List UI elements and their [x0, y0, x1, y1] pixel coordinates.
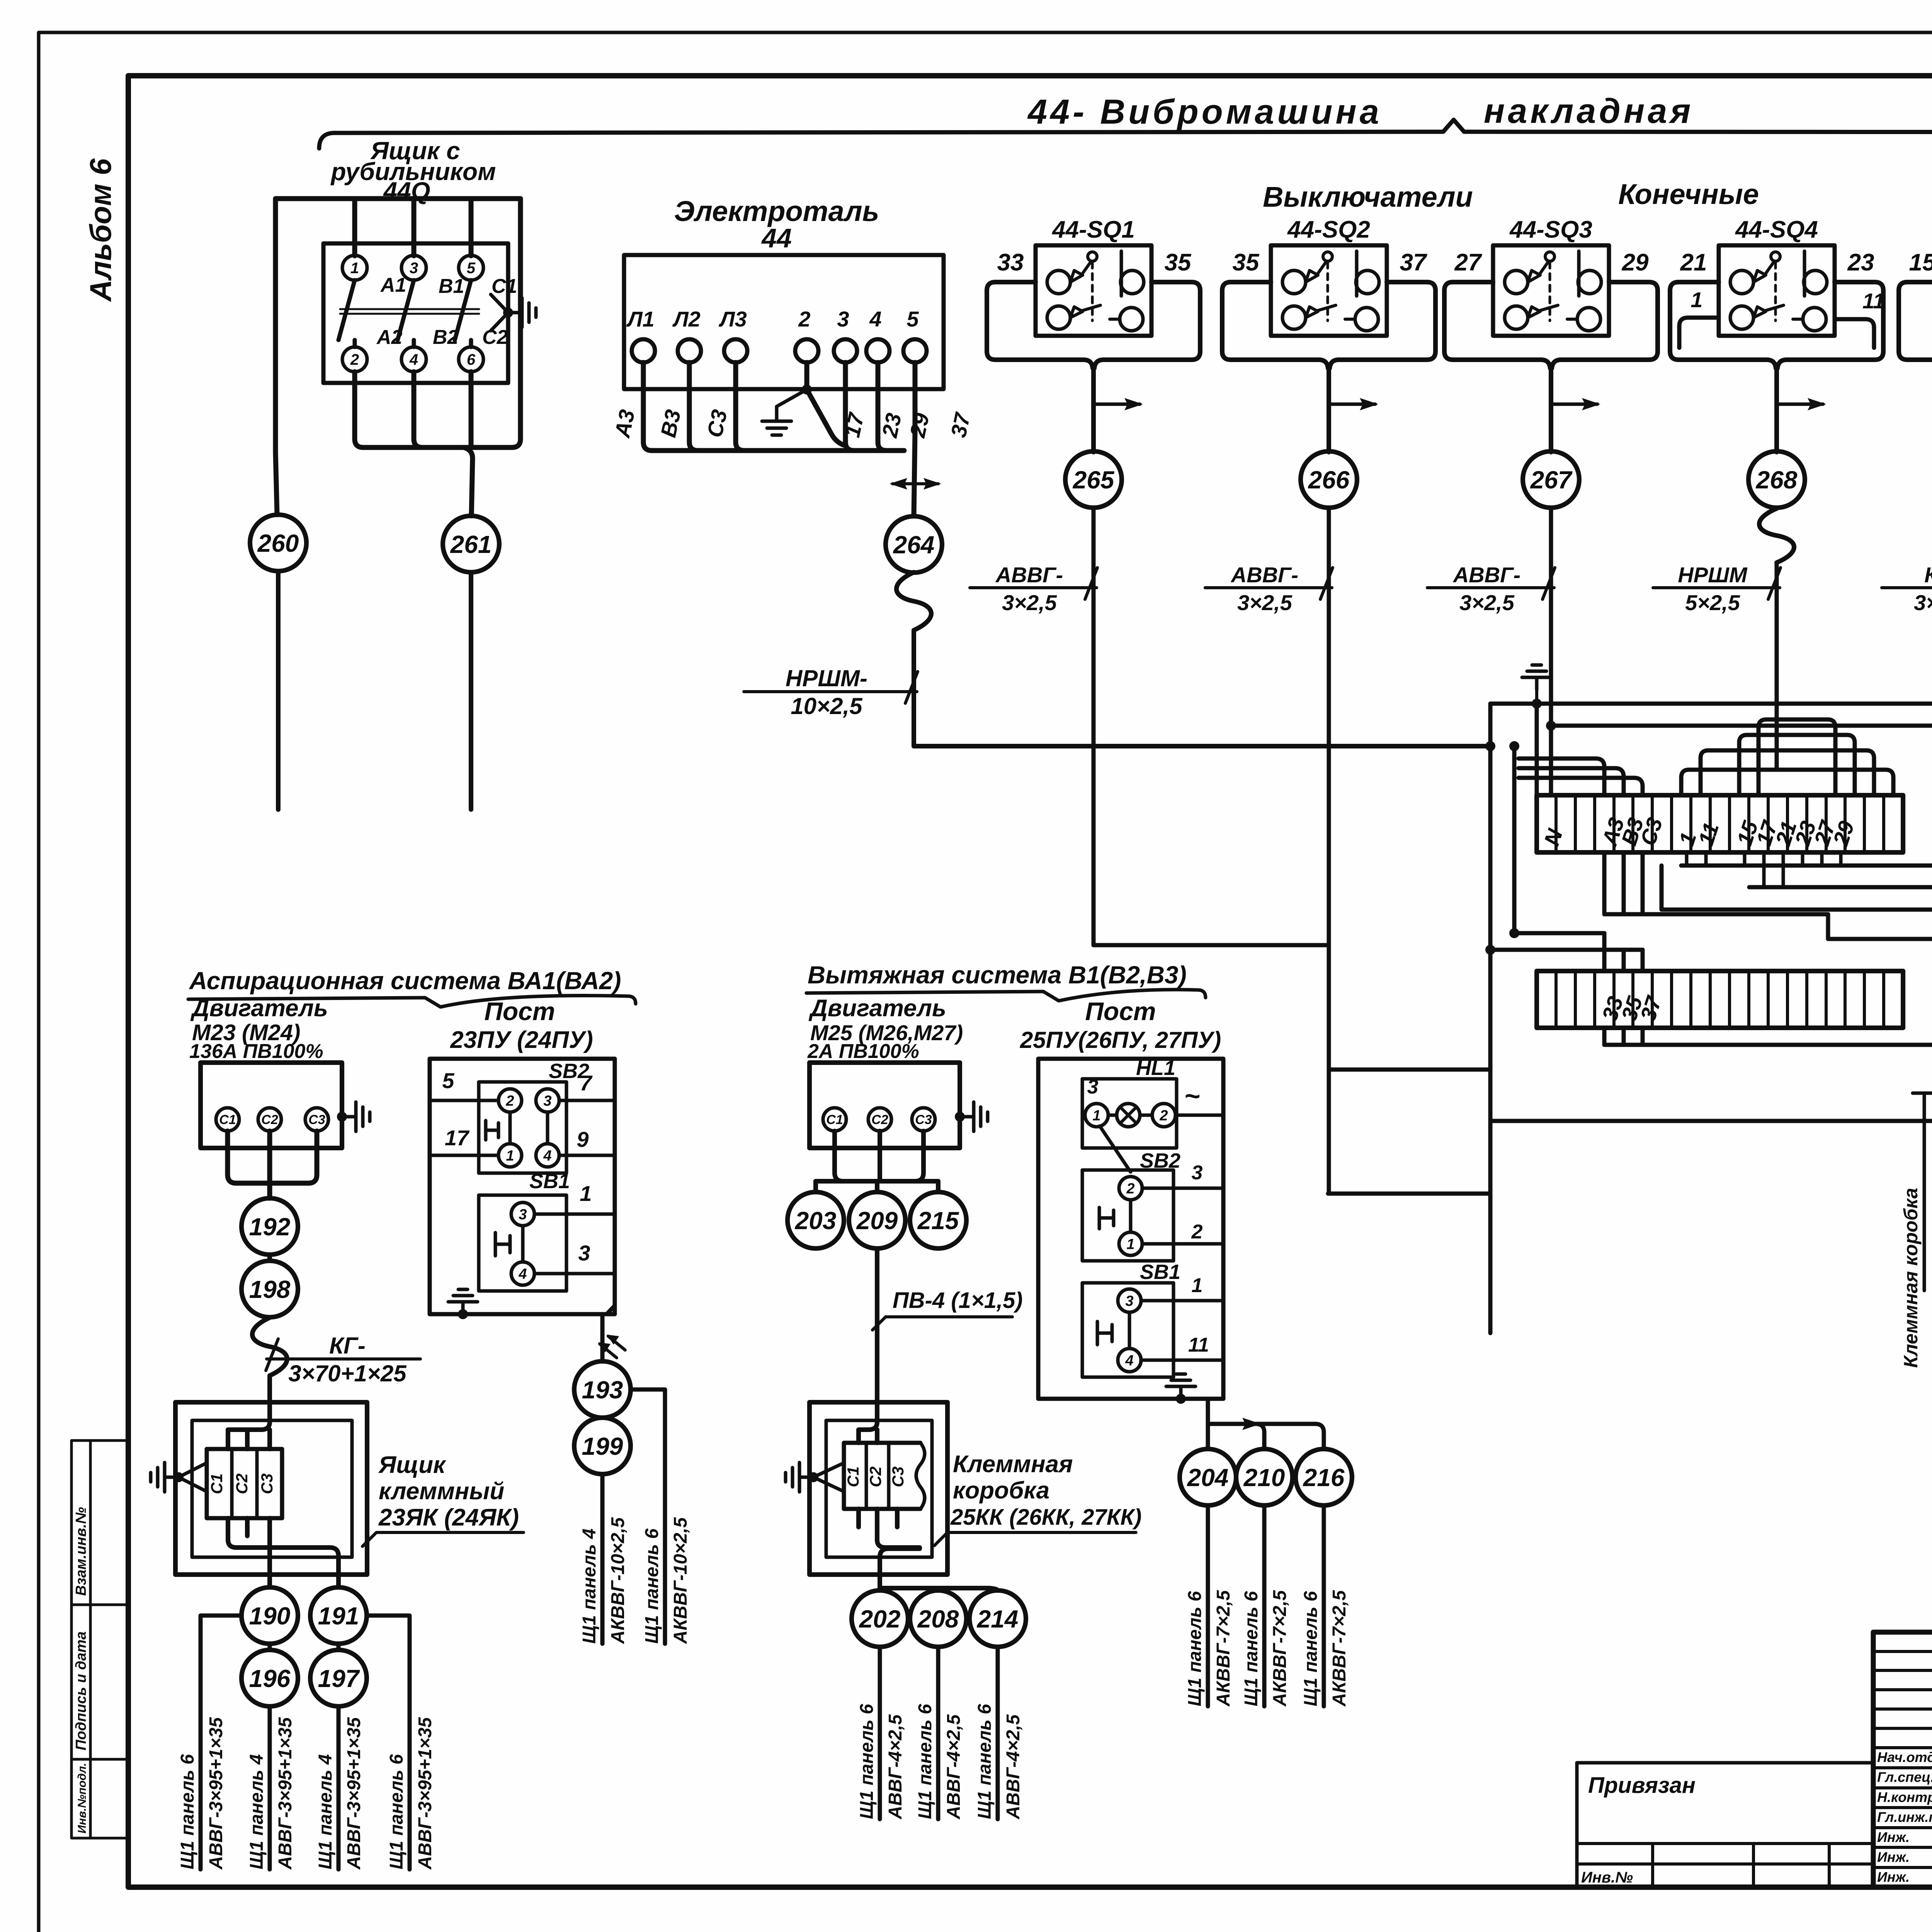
svg-text:коробка: коробка: [953, 1477, 1049, 1504]
svg-text:3: 3: [837, 307, 849, 331]
control post 23PU box: [430, 1059, 615, 1314]
svg-text:Клеммная коробка: Клеммная коробка: [1900, 1188, 1922, 1368]
svg-text:С2: С2: [871, 1112, 888, 1127]
limit switch 44-SQ2: [1271, 245, 1387, 336]
svg-text:Щ1 панель 6: Щ1 панель 6: [386, 1754, 407, 1869]
23YAK earthing: [179, 1463, 207, 1492]
svg-text:268: 268: [1756, 466, 1798, 494]
svg-text:260: 260: [257, 529, 299, 557]
cable slack below 264: [896, 572, 931, 630]
disconnect marker on feeder: [893, 482, 938, 485]
junction box 23YAK(24YAK): [175, 1402, 367, 1575]
node 202: [852, 1590, 908, 1647]
wire 209 to 25KK: [875, 1249, 879, 1402]
svg-text:209: 209: [856, 1207, 898, 1235]
destination label dest under 199: [579, 1517, 628, 1644]
svg-text:Инж.: Инж.: [1877, 1869, 1910, 1885]
svg-text:215: 215: [917, 1207, 959, 1235]
svg-text:Щ1 панель 6: Щ1 панель 6: [642, 1529, 662, 1644]
destination label dest under 210: [1241, 1590, 1290, 1707]
contact 3: [401, 255, 426, 280]
svg-text:193: 193: [582, 1376, 623, 1404]
23YAK terminal block C1 C2 C3: [207, 1449, 282, 1518]
svg-text:25ПУ(26ПУ, 27ПУ): 25ПУ(26ПУ, 27ПУ): [1020, 1027, 1221, 1053]
svg-text:Двигатель: Двигатель: [808, 995, 946, 1022]
svg-text:SB1: SB1: [529, 1170, 570, 1193]
svg-text:С1: С1: [826, 1112, 843, 1127]
svg-text:С2: С2: [233, 1473, 251, 1494]
motor M23 terminal C3: [305, 1108, 328, 1131]
motor M23 box: [201, 1063, 342, 1148]
svg-text:198: 198: [249, 1276, 291, 1303]
SB2 wires: [430, 1100, 615, 1155]
node 197: [310, 1650, 367, 1706]
svg-text:210: 210: [1243, 1464, 1285, 1492]
stub cluster into strip from left buses: [1519, 759, 1643, 795]
motor M25 earthing: [955, 1112, 965, 1122]
harness bus upper: [1490, 704, 1932, 866]
svg-text:1: 1: [506, 1148, 514, 1164]
destination label dest under 214: [975, 1704, 1024, 1820]
left harness vertical: [1488, 704, 1493, 1333]
wire below 265: [1092, 509, 1096, 945]
switch blades: [338, 280, 471, 347]
ground at M23: [342, 1102, 370, 1131]
svg-text:21: 21: [1680, 249, 1707, 276]
svg-text:27: 27: [1454, 249, 1482, 276]
wire below 196: [268, 1706, 272, 1869]
wire from 264 to terminal panel: [914, 630, 1488, 746]
wires below 202 208 214: [878, 1647, 882, 1819]
svg-text:накладная: накладная: [1484, 92, 1694, 131]
branch to 210 216: [1208, 1424, 1324, 1448]
svg-text:17: 17: [445, 1126, 470, 1150]
svg-text:15: 15: [1909, 249, 1932, 276]
stubs into lower strip: [1604, 933, 1643, 971]
svg-text:АВВГ-: АВВГ-: [995, 563, 1063, 587]
cable label AVVG-3x2.5 under 265: [970, 563, 1097, 615]
svg-text:С3: С3: [258, 1473, 276, 1494]
svg-text:3: 3: [519, 1206, 527, 1223]
svg-text:КГ-: КГ-: [1924, 563, 1932, 587]
node 203: [787, 1192, 844, 1248]
disconnect switch 44Q outer wiring box: [276, 199, 520, 452]
motor M23 terminal C2: [258, 1108, 281, 1131]
SB1 wires: [534, 1214, 615, 1274]
wires below 204 210 216: [1206, 1505, 1210, 1706]
svg-text:25КК (26КК, 27КК): 25КК (26КК, 27КК): [950, 1505, 1141, 1530]
branch from 193 right: [631, 1389, 665, 1644]
header wires to 203 209 215: [816, 1181, 938, 1192]
svg-text:Ящик: Ящик: [378, 1452, 446, 1478]
motor M25 terminal C2: [868, 1108, 891, 1131]
svg-text:АКВВГ-10×2,5: АКВВГ-10×2,5: [608, 1517, 628, 1644]
wiring loop of 44-SQ2: [1222, 282, 1435, 452]
flow arrow under 44-SQ1: [1094, 403, 1140, 406]
svg-text:Щ1 панель 4: Щ1 панель 4: [579, 1529, 600, 1644]
svg-text:Щ1 панель 6: Щ1 панель 6: [915, 1704, 935, 1819]
node 216: [1296, 1449, 1352, 1505]
svg-text:АВВГ-4×2,5: АВВГ-4×2,5: [944, 1714, 964, 1820]
svg-text:23ЯК (24ЯК): 23ЯК (24ЯК): [378, 1504, 519, 1531]
svg-text:196: 196: [249, 1665, 291, 1692]
svg-text:3: 3: [543, 1093, 551, 1109]
motor M25 terminal C3: [912, 1108, 935, 1131]
svg-text:НРШМ-: НРШМ-: [786, 665, 867, 691]
svg-text:С1: С1: [219, 1112, 236, 1127]
push button SB2 of 25PU: [1082, 1170, 1173, 1261]
svg-text:136А ПВ100%: 136А ПВ100%: [189, 1040, 323, 1063]
svg-text:23ПУ (24ПУ): 23ПУ (24ПУ): [450, 1027, 593, 1053]
wire 192-198: [267, 1255, 272, 1261]
push button SB1 of 25PU: [1082, 1283, 1173, 1377]
svg-text:1: 1: [350, 260, 359, 277]
svg-text:АВВГ-: АВВГ-: [1230, 563, 1298, 587]
svg-text:Подпись и дата: Подпись и дата: [73, 1631, 89, 1750]
svg-text:АВВГ-3×95+1×35: АВВГ-3×95+1×35: [206, 1717, 226, 1870]
disconnect marks: [600, 1344, 617, 1358]
cable label AVVG-3x2.5 under 267: [1427, 563, 1555, 615]
motor M23 terminal C1: [216, 1108, 239, 1131]
node 260: [250, 515, 306, 571]
wire: [1329, 1068, 1490, 1072]
earthing of 44Q enclosure: [503, 308, 513, 318]
ground on hoist neutral wire: [802, 384, 812, 395]
inner loop of 25KK: [826, 1420, 932, 1557]
svg-text:АВВГ-4×2,5: АВВГ-4×2,5: [1003, 1714, 1024, 1820]
branch to left label: [201, 1616, 241, 1869]
svg-text:44-SQ3: 44-SQ3: [1509, 216, 1592, 243]
wires from contacts 2 4 6 to bundle: [355, 372, 512, 516]
wire: [1622, 1028, 1626, 1045]
node 199: [574, 1418, 631, 1474]
node 265: [1065, 451, 1122, 508]
left margin stamp boxes: [71, 1440, 128, 1838]
svg-text:261: 261: [450, 531, 492, 558]
svg-text:АВВГ-: АВВГ-: [1452, 563, 1520, 587]
node 268: [1748, 451, 1805, 508]
svg-text:АВВГ-4×2,5: АВВГ-4×2,5: [885, 1714, 906, 1820]
node 208: [910, 1590, 966, 1647]
wire below 267: [1549, 509, 1553, 795]
push button SB1: [479, 1195, 566, 1291]
svg-text:Инв.№подл.: Инв.№подл.: [76, 1763, 88, 1833]
limit switch 44-SQ1: [1036, 245, 1151, 336]
svg-text:6: 6: [467, 351, 476, 368]
cable label NRShM 5x2.5 under 268: [1653, 563, 1781, 615]
wire from node 260 down: [276, 571, 281, 810]
svg-text:С3: С3: [915, 1112, 932, 1127]
svg-text:ПВ-4 (1×1,5): ПВ-4 (1×1,5): [893, 1288, 1023, 1313]
cable label KG-3x2.5 under 269: [1882, 563, 1932, 615]
destination label dest col4: [386, 1717, 435, 1870]
svg-text:SB1: SB1: [1140, 1260, 1180, 1284]
wire below 266: [1327, 509, 1331, 1194]
wire 190-196: [268, 1644, 272, 1650]
svg-text:Инж.: Инж.: [1877, 1849, 1910, 1865]
svg-text:4: 4: [869, 307, 881, 331]
wiring loop of 44-SQ4: [1670, 282, 1883, 452]
svg-text:С2: С2: [866, 1466, 884, 1487]
svg-text:11: 11: [1188, 1334, 1209, 1356]
node 204: [1180, 1449, 1236, 1505]
node 267: [1523, 451, 1579, 508]
svg-text:35: 35: [1165, 249, 1192, 276]
node 266: [1301, 451, 1357, 508]
svg-text:HL1: HL1: [1136, 1056, 1175, 1080]
svg-text:192: 192: [249, 1213, 291, 1241]
ground at strip: [1522, 665, 1551, 690]
SB1 wires: [1141, 1299, 1223, 1303]
svg-text:199: 199: [582, 1432, 623, 1460]
destination label dest under 216: [1301, 1590, 1350, 1707]
svg-text:3: 3: [410, 260, 418, 277]
25KK earthing: [813, 1463, 844, 1492]
svg-text:Гл.инж.пр: Гл.инж.пр: [1877, 1809, 1932, 1825]
cable label NRShM-10x2.5 on 264 wire: [744, 665, 918, 719]
svg-text:АКВВГ-7×2,5: АКВВГ-7×2,5: [1329, 1590, 1350, 1707]
ground at 25KK: [786, 1463, 813, 1492]
svg-text:7: 7: [580, 1071, 593, 1095]
svg-text:44- Вибромашина: 44- Вибромашина: [1027, 93, 1382, 131]
limit switch 44-SQ3: [1493, 245, 1609, 336]
ground at 25PU: [1166, 1374, 1196, 1399]
svg-text:Щ1 панель 6: Щ1 панель 6: [177, 1754, 198, 1869]
arrow out: [1208, 1422, 1258, 1426]
inner loop of 23YAK: [192, 1420, 352, 1557]
svg-text:С1: С1: [207, 1473, 226, 1494]
privyazan box: [1577, 1763, 1873, 1887]
hoist terminal box 44: [624, 255, 944, 389]
svg-text:С1: С1: [492, 275, 517, 298]
cable slack below 268: [1759, 509, 1794, 563]
svg-text:АКВВГ-7×2,5: АКВВГ-7×2,5: [1270, 1590, 1290, 1707]
svg-text:Выключатели: Выключатели: [1263, 181, 1473, 213]
svg-text:С3: С3: [889, 1466, 907, 1487]
svg-text:4: 4: [409, 351, 418, 368]
svg-text:Двигатель: Двигатель: [190, 995, 328, 1022]
node 264: [886, 516, 942, 573]
svg-text:Щ1 панель 6: Щ1 панель 6: [1241, 1591, 1262, 1706]
cable slack below 198: [252, 1318, 287, 1376]
svg-text:3: 3: [1192, 1162, 1203, 1184]
svg-text:197: 197: [318, 1665, 361, 1692]
svg-text:33: 33: [997, 249, 1024, 276]
title block table: [1873, 1632, 1932, 1887]
nested loop over strip cells 1..29: [1681, 719, 1893, 795]
svg-text:Взам.инв.№: Взам.инв.№: [73, 1507, 89, 1596]
wire 198 to 23YAK: [267, 1376, 272, 1402]
wire lower strip to 263: [1604, 1028, 1932, 1045]
cable label AVVG-3x2.5 under 266: [1205, 563, 1333, 615]
motor M25 box: [810, 1063, 960, 1148]
terminal strip 44KK upper: [1537, 795, 1903, 852]
push button SB2: [479, 1082, 566, 1173]
control post 25PU box: [1038, 1059, 1223, 1399]
svg-text:клеммный: клеммный: [379, 1478, 504, 1505]
svg-text:Альбом 6: Альбом 6: [83, 158, 117, 302]
node 214: [969, 1590, 1026, 1647]
svg-text:11: 11: [1862, 289, 1885, 313]
cable tail to 44KK box: [1923, 1093, 1926, 1291]
svg-text:2: 2: [505, 1093, 514, 1109]
header underline: [806, 990, 1206, 1001]
contact 6: [459, 347, 483, 372]
wiring loop of 44-SQ1: [987, 282, 1200, 452]
svg-text:1: 1: [1690, 287, 1702, 312]
destination label dest right of 193: [642, 1517, 691, 1644]
svg-text:5×2,5: 5×2,5: [1685, 590, 1740, 615]
svg-text:А1: А1: [380, 274, 406, 296]
wire 193-199: [600, 1416, 605, 1420]
svg-text:Пост: Пост: [1085, 997, 1156, 1026]
svg-text:АКВВГ-10×2,5: АКВВГ-10×2,5: [670, 1517, 691, 1644]
destination label dest under 202: [857, 1704, 906, 1820]
svg-text:214: 214: [977, 1605, 1019, 1633]
svg-text:Щ1 панель 4: Щ1 панель 4: [315, 1754, 336, 1869]
ground at strip N terminal: [1532, 699, 1542, 709]
branch to right label: [367, 1616, 410, 1869]
svg-text:44-SQ2: 44-SQ2: [1287, 216, 1370, 243]
blade tie bar (double line): [340, 308, 479, 310]
svg-text:Электроталь: Электроталь: [674, 195, 879, 227]
svg-text:Щ1 панель 6: Щ1 панель 6: [975, 1704, 995, 1819]
wire: [1641, 1028, 1645, 1045]
svg-text:29: 29: [1622, 249, 1649, 276]
SB2 wires: [1142, 1187, 1223, 1190]
svg-text:190: 190: [249, 1602, 291, 1630]
node 215: [910, 1192, 966, 1248]
svg-text:265: 265: [1073, 466, 1115, 494]
svg-text:Щ1 панель 6: Щ1 панель 6: [1301, 1591, 1321, 1706]
svg-text:В1: В1: [439, 275, 464, 298]
svg-text:АВВГ-3×95+1×35: АВВГ-3×95+1×35: [344, 1717, 364, 1870]
wiring loop of 44-SQ5: [1899, 282, 1932, 452]
ground at hoist: [762, 406, 791, 435]
destination label dest 44KK: [1900, 1188, 1932, 1368]
junction dots in harness: [1546, 721, 1556, 731]
svg-text:2: 2: [1191, 1221, 1203, 1243]
node 191: [310, 1587, 367, 1644]
signal lamp HL1: [1082, 1079, 1177, 1148]
hoist terminal wires bundling: [643, 362, 915, 516]
svg-text:КГ-: КГ-: [329, 1333, 366, 1359]
svg-text:2: 2: [350, 351, 359, 368]
svg-text:1: 1: [1192, 1274, 1203, 1297]
svg-text:Щ1 панель 6: Щ1 панель 6: [1185, 1591, 1205, 1706]
svg-text:Привязан: Привязан: [1588, 1773, 1696, 1798]
svg-text:35: 35: [1233, 249, 1260, 276]
svg-text:5: 5: [442, 1068, 454, 1093]
svg-text:9: 9: [577, 1127, 588, 1151]
svg-text:Вытяжная система В1(В2,В3): Вытяжная система В1(В2,В3): [808, 961, 1187, 989]
svg-text:Щ1 панель 6: Щ1 панель 6: [857, 1704, 877, 1819]
svg-text:3×2,5: 3×2,5: [1237, 590, 1293, 615]
svg-text:Инв.№: Инв.№: [1581, 1869, 1633, 1886]
cable label KG-3x70+1x25: [266, 1333, 420, 1386]
ground at M25: [960, 1102, 988, 1131]
wire: [1328, 1192, 1490, 1196]
destination label dest col3: [315, 1717, 364, 1870]
wiring inside 23YAK: [228, 1402, 338, 1587]
header underline: [188, 996, 636, 1007]
25KK terminal block C1 C2 C3: [844, 1443, 925, 1509]
motor M23 lead bundling: [228, 1131, 317, 1198]
destination label dest col2: [247, 1717, 296, 1870]
ground in 25PU: [1176, 1394, 1186, 1404]
limit switch 44-SQ4: [1719, 245, 1835, 336]
wiring loop of 44-SQ3: [1444, 282, 1658, 452]
svg-text:3×2,5: 3×2,5: [1459, 590, 1515, 615]
svg-text:264: 264: [893, 531, 935, 559]
svg-text:208: 208: [917, 1605, 959, 1633]
node 209: [849, 1192, 905, 1248]
svg-text:4: 4: [1125, 1352, 1133, 1369]
svg-text:2: 2: [798, 307, 810, 331]
wiring inside 25KK: [859, 1402, 998, 1590]
wire: [1490, 948, 1643, 952]
node 210: [1236, 1449, 1293, 1505]
ground at 23PU: [448, 1289, 478, 1314]
svg-text:4: 4: [543, 1148, 551, 1164]
node 193: [574, 1361, 631, 1418]
stubs from strip down to buses: [1687, 852, 1841, 887]
svg-text:Л3: Л3: [718, 307, 747, 331]
node 190: [241, 1587, 298, 1644]
svg-text:2А ПВ100%: 2А ПВ100%: [807, 1040, 919, 1063]
svg-text:Н.контр.: Н.контр.: [1877, 1789, 1932, 1805]
svg-text:29: 29: [905, 411, 934, 440]
SQ4 extra contacts 1 and 11: [1679, 318, 1874, 348]
node 198: [241, 1261, 298, 1317]
node 261: [443, 516, 499, 572]
wire below 197: [337, 1706, 341, 1869]
contact 4: [401, 347, 426, 372]
svg-text:3: 3: [1087, 1076, 1099, 1098]
svg-text:44: 44: [761, 223, 792, 253]
node 192: [241, 1198, 298, 1255]
svg-text:5: 5: [467, 260, 476, 277]
svg-text:Л1: Л1: [626, 307, 655, 331]
flow arrow under 44-SQ2: [1329, 403, 1375, 406]
motor M23 earthing: [337, 1112, 347, 1122]
svg-text:~: ~: [1184, 1081, 1200, 1111]
svg-text:3×2,5: 3×2,5: [1002, 590, 1057, 615]
svg-text:АВВГ-3×95+1×35: АВВГ-3×95+1×35: [275, 1717, 296, 1870]
wire to 262: [1662, 866, 1932, 910]
HL1 wires: [1175, 1114, 1223, 1117]
svg-text:23: 23: [1847, 249, 1874, 276]
svg-text:Инж.: Инж.: [1877, 1829, 1910, 1845]
svg-text:2: 2: [1126, 1180, 1134, 1197]
svg-text:1: 1: [580, 1181, 592, 1206]
header group bracket line: [319, 120, 1932, 148]
svg-text:С3: С3: [308, 1112, 325, 1127]
svg-text:3×70+1×25: 3×70+1×25: [288, 1361, 407, 1386]
svg-text:23: 23: [877, 411, 906, 440]
destination label dest col1: [177, 1717, 226, 1870]
svg-text:Конечные: Конечные: [1618, 178, 1759, 210]
svg-text:3×2,5: 3×2,5: [1914, 590, 1932, 615]
destination label dest under 208: [915, 1704, 964, 1820]
feeder wires into poles 1,3,5: [352, 199, 357, 256]
svg-text:НРШМ: НРШМ: [1678, 563, 1748, 587]
flow arrow under 44-SQ4: [1777, 403, 1823, 406]
wire: [1514, 746, 1604, 933]
svg-text:Пост: Пост: [484, 997, 555, 1026]
diagonal wire HL1 to SB2: [1100, 1126, 1131, 1172]
svg-text:10×2,5: 10×2,5: [791, 693, 863, 719]
